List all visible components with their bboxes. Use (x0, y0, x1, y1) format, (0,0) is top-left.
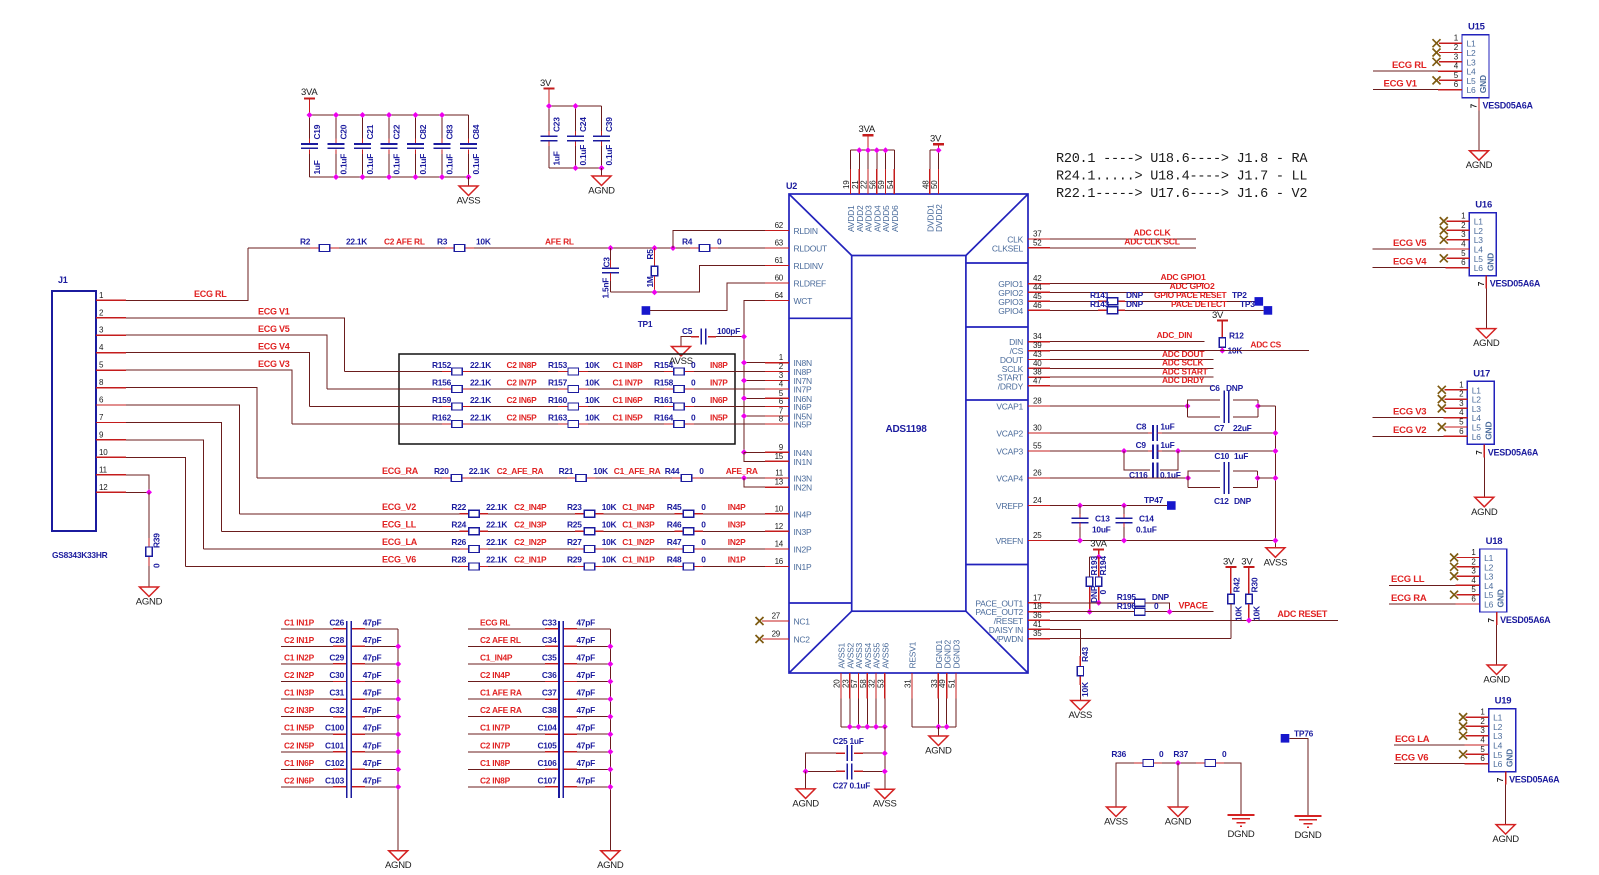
svg-text:VREFN: VREFN (995, 536, 1023, 546)
svg-text:0: 0 (717, 237, 722, 247)
junction R194 PACE_OUT1 (1096, 600, 1102, 606)
svg-text:22.1K: 22.1K (470, 395, 491, 405)
U16 pin 4 L4 (1445, 248, 1469, 250)
cap bank plates (558, 621, 560, 798)
svg-text:0.1uF: 0.1uF (365, 154, 375, 175)
svg-text:C28: C28 (329, 635, 344, 645)
svg-text:R21: R21 (559, 466, 574, 476)
svg-text:AGND: AGND (385, 860, 412, 871)
U2 pin 46 GPIO4 (1028, 309, 1050, 311)
wire ECG V4 from J1.4 to R159 (126, 353, 310, 407)
svg-text:10K: 10K (602, 555, 617, 565)
svg-text:1uF: 1uF (552, 151, 562, 165)
U2 pin 26 VCAP4 (1028, 477, 1050, 479)
svg-text:47pF: 47pF (363, 688, 382, 698)
svg-text:1uF: 1uF (1160, 440, 1174, 450)
svg-text:VESD05A6A: VESD05A6A (1500, 615, 1551, 625)
resistor R22 22.1K (460, 513, 469, 515)
svg-text:R196: R196 (1117, 601, 1137, 611)
svg-text:/PWDN: /PWDN (996, 634, 1023, 644)
svg-text:22.1K: 22.1K (470, 413, 491, 423)
capacitor C39 0.1uF (601, 106, 603, 131)
resistor R30 10K (1246, 594, 1252, 603)
junction 3VA node (1096, 554, 1102, 560)
junctions 3VA bus (307, 112, 313, 118)
U2 pin 37 CLK (1028, 238, 1050, 240)
svg-text:C1 IN2P: C1 IN2P (284, 652, 315, 662)
svg-text:39: 39 (1033, 341, 1042, 350)
U2 pin 58 AVSS4 (866, 673, 868, 699)
svg-text:R163: R163 (548, 413, 568, 423)
svg-text:CLKSEL: CLKSEL (992, 243, 1024, 253)
junction C27 left (803, 768, 809, 774)
svg-text:VCAP1: VCAP1 (996, 402, 1023, 412)
svg-text:0.1uF: 0.1uF (604, 145, 614, 166)
ground AVSS (C5) (672, 347, 691, 357)
junction IN4N (741, 449, 747, 455)
wire IN6N stub (744, 397, 765, 399)
svg-text:GND: GND (1485, 253, 1495, 271)
resistor R143 DNP (1098, 309, 1107, 311)
resistor R161 0 (664, 406, 674, 408)
svg-text:ECG RL: ECG RL (480, 617, 510, 627)
svg-text:AVSS: AVSS (1104, 817, 1128, 828)
J1 pin 11 (96, 474, 126, 476)
svg-text:IN5P: IN5P (794, 420, 812, 430)
U2 pin 2 IN8P (765, 371, 789, 373)
svg-text:C2 IN6P: C2 IN6P (284, 775, 315, 785)
U2 pin 13 IN2N (765, 486, 789, 488)
svg-text:28: 28 (1033, 397, 1042, 406)
svg-text:R46: R46 (667, 519, 682, 529)
U2 pin 54 AVDD6 (893, 150, 895, 169)
svg-text:0: 0 (152, 563, 162, 568)
svg-text:ECG V4: ECG V4 (258, 342, 290, 352)
wire VPACE (1145, 611, 1213, 613)
wire IN7N stub (744, 380, 765, 382)
capacitor C100 47pF (C1 IN5P) (281, 733, 333, 735)
svg-text:0: 0 (1222, 749, 1227, 759)
svg-text:35: 35 (1033, 629, 1042, 638)
svg-text:19: 19 (842, 180, 851, 189)
svg-text:47pF: 47pF (576, 652, 595, 662)
wire ADC CS (1050, 350, 1309, 352)
resistor R45 0 (674, 513, 683, 515)
U18 pin 2 L2 (1450, 563, 1458, 571)
svg-text:IN1P: IN1P (728, 555, 746, 565)
svg-text:10K: 10K (602, 519, 617, 529)
resistor R24 22.1K (460, 530, 469, 532)
svg-text:47pF: 47pF (576, 723, 595, 733)
svg-text:C10: C10 (1214, 451, 1229, 461)
svg-text:30: 30 (1033, 424, 1042, 433)
U16 pin 2 L2 (1440, 226, 1448, 234)
svg-text:L6: L6 (1472, 432, 1481, 442)
U2 pin 9 IN4N (765, 451, 789, 453)
svg-text:DNP: DNP (1226, 383, 1244, 393)
wire ECG RL to U15.4 (1373, 70, 1438, 72)
svg-text:NC1: NC1 (794, 617, 811, 627)
svg-text:R36: R36 (1111, 749, 1126, 759)
capacitor C101 47pF (C2 IN5P) (281, 751, 333, 753)
svg-text:RESV1: RESV1 (908, 641, 918, 668)
svg-text:0: 0 (699, 466, 704, 476)
svg-text:C26: C26 (329, 617, 344, 627)
capacitor C33 47pF (ECG RL) (468, 628, 545, 630)
wire R193/R194 top tie (1090, 556, 1099, 558)
svg-text:C23: C23 (552, 117, 562, 132)
cap bank plates (346, 621, 348, 798)
resistor R36 0 (1134, 762, 1143, 764)
svg-text:C1 IN7P: C1 IN7P (480, 723, 511, 733)
svg-text:GND: GND (1483, 422, 1493, 440)
svg-text:12: 12 (99, 483, 108, 492)
junction VCAP4 right (1255, 475, 1261, 481)
wire PACE_OUT2 (1050, 611, 1135, 613)
wire AVSS right bus (1274, 406, 1276, 548)
J1 pin 2 (96, 317, 126, 319)
svg-text:R48: R48 (667, 555, 682, 565)
resistor R43 10K (1079, 656, 1081, 667)
svg-text:3V: 3V (1223, 556, 1235, 567)
svg-text:47pF: 47pF (576, 775, 595, 785)
svg-text:VCAP4: VCAP4 (996, 474, 1023, 484)
svg-text:10K: 10K (602, 502, 617, 512)
svg-text:1.5nF: 1.5nF (601, 278, 611, 299)
svg-text:10K: 10K (476, 237, 491, 247)
capacitor C34 47pF (C2 AFE RL) (468, 645, 545, 647)
svg-text:47pF: 47pF (363, 670, 382, 680)
svg-text:R22.1-----> U17.6----> J1.6 -: R22.1-----> U17.6----> J1.6 - V2 (1056, 187, 1307, 202)
resistor R44 0 (672, 477, 681, 479)
svg-text:10K: 10K (585, 395, 600, 405)
svg-text:ECG V6: ECG V6 (1395, 752, 1428, 763)
svg-text:47pF: 47pF (576, 617, 595, 627)
svg-text:R30: R30 (1249, 577, 1259, 592)
svg-text:47pF: 47pF (363, 758, 382, 768)
resistor R4 0 (690, 247, 699, 249)
junction R193 PACE_OUT2 (1087, 609, 1093, 615)
svg-text:ADC DRDY: ADC DRDY (1162, 375, 1205, 385)
ground DGND (TP76) (1295, 815, 1322, 817)
svg-text:GND: GND (1505, 749, 1515, 767)
U18 pin 1 L1 (1450, 554, 1458, 562)
svg-text:47pF: 47pF (363, 723, 382, 733)
wire U16 GND to AGND (1485, 289, 1487, 329)
wire DVDD bus (930, 149, 939, 151)
wire 3VA top bus (310, 114, 469, 116)
resistor R20 22.1K (442, 477, 451, 479)
wire ECG LA to U19.4 (1394, 744, 1465, 746)
capacitor C102 47pF (C1 IN6P) (281, 768, 333, 770)
U2 pin 20 AVSS1 (840, 673, 842, 699)
junction VCAP2 bus (1272, 430, 1278, 436)
U19 pin 2 L2 (1459, 722, 1467, 730)
U2 pin 23 AVSS2 (849, 673, 851, 699)
svg-text:IN5P: IN5P (710, 413, 728, 423)
svg-text:ECG_LA: ECG_LA (382, 537, 418, 547)
svg-text:0.1uF: 0.1uF (1136, 525, 1157, 535)
svg-text:AGND: AGND (1492, 834, 1519, 845)
svg-text:IN8P: IN8P (710, 360, 728, 370)
svg-text:C30: C30 (329, 670, 344, 680)
svg-text:R156: R156 (432, 378, 452, 388)
wire VCAP3 (1050, 450, 1148, 452)
svg-text:22.1K: 22.1K (346, 237, 367, 247)
wire ADC DRDY (1050, 385, 1214, 387)
svg-text:AGND: AGND (1471, 507, 1498, 518)
U2 pin 52 CLKSEL (1028, 247, 1050, 249)
svg-text:RLDREF: RLDREF (794, 279, 827, 289)
svg-text:47pF: 47pF (363, 617, 382, 627)
svg-text:47pF: 47pF (576, 670, 595, 680)
junction R30 /RESET (1246, 617, 1252, 623)
ground AGND (cap bank) (601, 851, 620, 861)
svg-text:C2_IN1P: C2_IN1P (514, 555, 547, 565)
svg-text:GS8343K33HR: GS8343K33HR (52, 550, 108, 560)
svg-text:47pF: 47pF (576, 758, 595, 768)
svg-text:IN6P: IN6P (794, 402, 812, 412)
ground AVSS (bus) (875, 789, 894, 799)
svg-text:62: 62 (775, 221, 784, 230)
U2 pin 7 IN5N (765, 415, 789, 417)
wire ADC GPIO1 (1050, 283, 1204, 285)
capacitor C24 0.1uF (575, 106, 577, 131)
resistor R47 0 (674, 548, 683, 550)
ground AGND (U19) (1496, 825, 1515, 835)
capacitor C32 47pF (C2 IN3P) (281, 716, 333, 718)
svg-text:AGND: AGND (1473, 338, 1500, 349)
svg-text:22.1K: 22.1K (486, 502, 507, 512)
svg-text:L6: L6 (1467, 85, 1476, 95)
svg-text:3VA: 3VA (1090, 539, 1107, 550)
svg-text:C6: C6 (1210, 383, 1221, 393)
svg-text:ECG LL: ECG LL (1391, 574, 1425, 585)
wire 3V top bus (549, 105, 602, 107)
ground AGND (tie) (1169, 807, 1188, 817)
svg-text:C2 AFE RL: C2 AFE RL (384, 237, 425, 247)
capacitor C38 47pF (C2 AFE RA) (468, 716, 545, 718)
wire ECG V4 to U16.6 (1373, 267, 1446, 269)
svg-text:U2: U2 (786, 181, 797, 191)
svg-text:50: 50 (930, 180, 939, 189)
svg-text:R22: R22 (451, 502, 466, 512)
resistor R160 10K (558, 406, 568, 408)
svg-text:18: 18 (1033, 602, 1042, 611)
svg-text:C36: C36 (542, 670, 557, 680)
U2 pin 14 IN2P (765, 548, 789, 550)
svg-text:DGND3: DGND3 (952, 639, 962, 668)
U19 pin 4 L4 (1465, 744, 1489, 746)
wire AFE RL row (248, 247, 765, 249)
svg-text:0: 0 (691, 413, 696, 423)
svg-text:NC2: NC2 (794, 635, 811, 645)
svg-text:C2 IN2P: C2 IN2P (284, 670, 315, 680)
svg-text:C32: C32 (329, 705, 344, 715)
svg-text:L6: L6 (1474, 263, 1483, 273)
svg-text:ECG V4: ECG V4 (1393, 256, 1427, 267)
svg-text:AGND: AGND (588, 186, 615, 197)
wire ECG V1 from J1.2 to R152 (126, 318, 345, 372)
resistor R5 1M (654, 248, 656, 266)
svg-text:29: 29 (772, 630, 781, 639)
svg-text:R159: R159 (432, 395, 452, 405)
wire row ECG_RA (257, 477, 765, 479)
svg-text:C1_IN4P: C1_IN4P (622, 502, 655, 512)
resistor R29 10K (575, 566, 584, 568)
U2 pin 29 NC2 (756, 635, 764, 643)
svg-text:ECG_LL: ECG_LL (382, 519, 417, 529)
svg-text:3V: 3V (1241, 556, 1253, 567)
svg-text:3V: 3V (930, 134, 942, 145)
wire ECG V5 to U16.4 (1373, 248, 1446, 250)
svg-text:C1_IN4P: C1_IN4P (480, 652, 513, 662)
svg-text:10K: 10K (585, 360, 600, 370)
svg-text:DGND: DGND (1295, 830, 1322, 841)
svg-text:26: 26 (1033, 469, 1042, 478)
capacitor C3 1.5nF (610, 248, 612, 260)
wire U15 GND to AGND (1478, 111, 1480, 151)
U2 pin 33 DGND1 (937, 673, 939, 699)
junction DVDD bus (936, 147, 942, 153)
svg-text:1uF: 1uF (312, 160, 322, 174)
svg-text:1uF: 1uF (1234, 451, 1248, 461)
svg-text:55: 55 (1033, 442, 1042, 451)
svg-text:22: 22 (860, 180, 869, 189)
svg-text:R158: R158 (654, 378, 674, 388)
U2 pin 22 AVDD3 (867, 150, 869, 169)
svg-text:IN4P: IN4P (728, 502, 746, 512)
svg-text:C1 IN5P: C1 IN5P (284, 723, 315, 733)
svg-text:47pF: 47pF (363, 705, 382, 715)
svg-text:C1 IN5P: C1 IN5P (613, 413, 644, 423)
wire DGND bus (912, 726, 956, 728)
svg-text:ECG V3: ECG V3 (1393, 407, 1426, 418)
svg-text:45: 45 (1033, 292, 1042, 301)
svg-text:C2 IN7P: C2 IN7P (480, 740, 511, 750)
svg-text:R24.1.....> U18.4----> J1.7 -: R24.1.....> U18.4----> J1.7 - LL (1056, 170, 1307, 185)
wire IN4N stub (744, 451, 765, 453)
svg-text:C1 IN6P: C1 IN6P (613, 395, 644, 405)
resistor R158 0 (664, 388, 674, 390)
svg-text:C31: C31 (329, 688, 344, 698)
svg-text:C2 IN1P: C2 IN1P (284, 635, 315, 645)
wire ECG LL from J1.7 (126, 422, 222, 531)
svg-text:R152: R152 (432, 360, 452, 370)
capacitor C25 1uF (863, 752, 885, 754)
junction J1.12 (146, 489, 152, 495)
U2 pin 18 PACE_OUT2 (1028, 611, 1050, 613)
svg-text:AGND: AGND (925, 746, 952, 757)
capacitor C104 47pF (C1 IN7P) (468, 733, 545, 735)
J1 pin 4 (96, 352, 126, 354)
svg-text:37: 37 (1033, 230, 1042, 239)
svg-text:10K: 10K (585, 378, 600, 388)
wire AVSS bus (841, 726, 885, 728)
svg-text:AVDD6: AVDD6 (890, 205, 900, 232)
svg-text:43: 43 (1033, 350, 1042, 359)
wire RLDREF to TP1 (650, 283, 765, 311)
resistor R21 10K (567, 477, 576, 479)
ground AVSS (R36) (1107, 807, 1126, 817)
svg-text:IN2N: IN2N (794, 483, 812, 493)
svg-text:22.1K: 22.1K (470, 360, 491, 370)
wire ECG V3 from J1.5 to R162 (126, 370, 292, 424)
resistor R193 DNP (1089, 557, 1091, 577)
svg-text:U18: U18 (1486, 536, 1503, 547)
junction C27 right (882, 768, 888, 774)
wire ECG V1 to U15.6 (1373, 89, 1438, 91)
svg-text:R25: R25 (567, 519, 582, 529)
junctions cap bank bus (607, 643, 613, 649)
svg-text:R3: R3 (437, 237, 448, 247)
resistor R153 10K (558, 371, 568, 373)
wire PACE_OUT1 (1050, 602, 1135, 604)
svg-text:VESD05A6A: VESD05A6A (1488, 447, 1539, 457)
U17 pin 4 L4 (1443, 417, 1467, 419)
test point TP76 (1281, 734, 1290, 743)
svg-text:R39: R39 (152, 533, 162, 548)
svg-text:C25 1uF: C25 1uF (833, 736, 864, 746)
svg-text:57: 57 (850, 679, 859, 688)
svg-text:10K: 10K (602, 537, 617, 547)
svg-text:64: 64 (775, 291, 784, 300)
wire 3V bank bottom bus (549, 167, 602, 169)
wire ADC GPIO2 (1050, 291, 1213, 293)
svg-text:47pF: 47pF (363, 652, 382, 662)
capacitor C19 1uF (309, 115, 311, 139)
U2 pin 17 PACE_OUT1 (1028, 602, 1050, 604)
svg-text:R26: R26 (451, 537, 466, 547)
svg-text:10K: 10K (1233, 605, 1243, 621)
U2 pin 56 AVDD4 (876, 150, 878, 169)
resistor R194 0 (1098, 557, 1100, 577)
svg-text:C39: C39 (604, 117, 614, 132)
capacitor C105 47pF (C2 IN7P) (468, 751, 545, 753)
U2 pin 27 NC1 (756, 617, 764, 625)
ground DGND (R37) (1228, 814, 1255, 816)
resistor R26 22.1K (460, 548, 469, 550)
svg-text:C5: C5 (682, 326, 693, 336)
U2 pin 5 IN6N (765, 397, 789, 399)
capacitor C10 1uF / C12 DNP loop (1188, 471, 1220, 488)
svg-text:TP3: TP3 (1240, 299, 1255, 309)
capacitor C116 0.1uF loop (1124, 451, 1150, 470)
svg-text:R154: R154 (654, 360, 674, 370)
J1 pin 5 (96, 369, 126, 371)
U2 pin 41 DAISY IN (1028, 628, 1050, 630)
svg-text:C84: C84 (471, 124, 481, 139)
U2 pin 16 IN1P (765, 566, 789, 568)
svg-text:C27 0.1uF: C27 0.1uF (833, 781, 870, 791)
wire ADC_DIN (1050, 341, 1205, 343)
wire ADC CLK SCL (1050, 247, 1196, 249)
svg-text:3VA: 3VA (301, 87, 318, 98)
U2 pin 25 VREFN (1028, 540, 1050, 542)
U2 pin 48 DVDD1 (929, 150, 931, 169)
wire /RESET ADC RESET (1050, 619, 1338, 621)
svg-text:R161: R161 (654, 395, 674, 405)
wire ECG RA from J1.8 (126, 388, 257, 478)
svg-text:3VA: 3VA (859, 124, 876, 135)
U17 pin 7 GND (1483, 444, 1485, 457)
resistor R157 10K (558, 388, 568, 390)
svg-text:C1 IN8P: C1 IN8P (480, 758, 511, 768)
svg-text:ADC_DIN: ADC_DIN (1157, 330, 1193, 340)
svg-text:0: 0 (691, 360, 696, 370)
svg-text:ECG RL: ECG RL (1392, 60, 1427, 71)
svg-text:C34: C34 (542, 635, 557, 645)
